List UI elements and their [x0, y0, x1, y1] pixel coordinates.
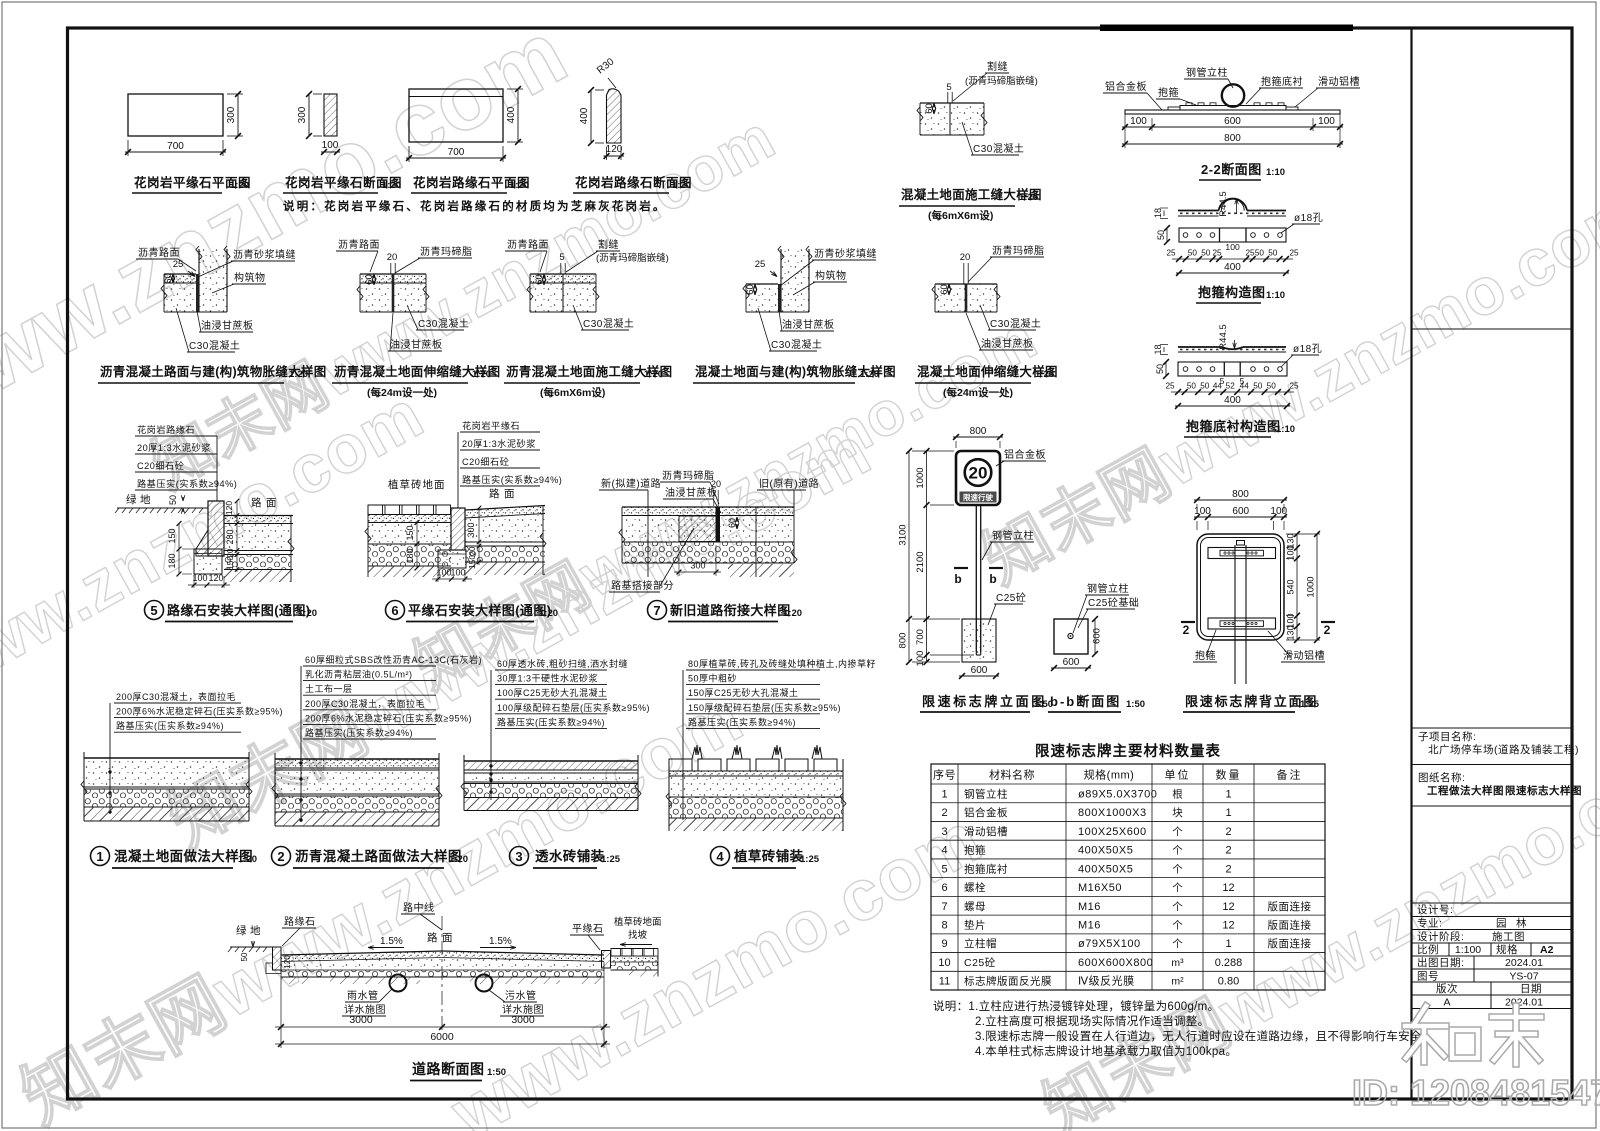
- svg-text:ø79X5X100: ø79X5X100: [1078, 938, 1141, 950]
- svg-text:绿: 绿: [236, 924, 247, 937]
- svg-text:路基搭接部分: 路基搭接部分: [611, 579, 674, 592]
- svg-text:钢管立柱: 钢管立柱: [964, 787, 1008, 800]
- svg-text:铝合金板: 铝合金板: [964, 806, 1008, 819]
- svg-text:b: b: [989, 572, 996, 586]
- svg-text:抱箍: 抱箍: [1195, 649, 1216, 662]
- svg-text:找坡: 找坡: [628, 929, 648, 941]
- svg-text:垫片: 垫片: [964, 919, 986, 932]
- svg-text:沥青玛碲脂: 沥青玛碲脂: [992, 244, 1045, 257]
- new road concrete + lap block: [622, 516, 716, 543]
- detail: asphalt pavement construction joint 沥青混凝土地面施工缝大样图: [530, 274, 596, 283]
- top slide rail: [1208, 548, 1276, 559]
- detail: granite flat-curb plan 花岗岩平缘石平面图: [128, 94, 223, 136]
- svg-text:C25砼基础: C25砼基础: [1088, 596, 1139, 609]
- svg-text:800: 800: [1224, 133, 1241, 144]
- subgrade hatch patches under road: [330, 977, 420, 984]
- svg-text:ø18孔: ø18孔: [1294, 212, 1323, 224]
- svg-text:50: 50: [1200, 382, 1210, 391]
- svg-text:2-2断面图: 2-2断面图: [1201, 162, 1262, 177]
- extra-thick top border segment: [1100, 25, 1353, 32]
- svg-text:(每6mX6m设): (每6mX6m设): [928, 209, 993, 222]
- svg-text:3: 3: [515, 849, 522, 864]
- svg-text:油浸甘蔗板: 油浸甘蔗板: [665, 486, 718, 499]
- svg-text:20: 20: [387, 252, 398, 263]
- svg-text:1: 1: [941, 788, 947, 800]
- svg-text:50: 50: [240, 952, 249, 961]
- svg-text:污水管: 污水管: [505, 989, 537, 1002]
- svg-text:地: 地: [140, 493, 151, 506]
- svg-text:说明：花岗岩平缘石、花岗岩路缘石的材质均为芝麻灰花岗岩。: 说明：花岗岩平缘石、花岗岩路缘石的材质均为芝麻灰花岗岩。: [283, 199, 667, 213]
- svg-text:抱箍: 抱箍: [964, 844, 986, 857]
- svg-text:铝合金板: 铝合金板: [1105, 80, 1147, 93]
- svg-text:设计号:: 设计号:: [1417, 903, 1453, 916]
- svg-text:6000: 6000: [430, 1031, 454, 1043]
- svg-text:抱箍底衬构造图: 抱箍底衬构造图: [1186, 419, 1281, 434]
- svg-text:新旧道路衔接大样图: 新旧道路衔接大样图: [670, 603, 791, 618]
- svg-text:100: 100: [1130, 116, 1147, 127]
- svg-text:图纸名称:: 图纸名称:: [1418, 771, 1465, 784]
- detail: sign panel section 2-2断面图: [1125, 84, 1340, 114]
- svg-text:600X600X800: 600X600X800: [1078, 957, 1153, 969]
- svg-text:绿: 绿: [126, 493, 137, 506]
- joint dark strip: [716, 507, 721, 542]
- svg-text:版次: 版次: [1436, 982, 1458, 995]
- svg-text:3000: 3000: [349, 1014, 373, 1026]
- svg-text:A2: A2: [1540, 944, 1554, 956]
- detail: concrete pavement construction joint 混凝土地面施工缝大样图 (top): [920, 102, 984, 104]
- svg-text:11: 11: [939, 976, 950, 988]
- svg-text:60: 60: [727, 518, 737, 528]
- svg-text:b: b: [954, 572, 961, 586]
- svg-text:立柱帽: 立柱帽: [964, 937, 997, 950]
- svg-text:b-b断面图: b-b断面图: [1050, 694, 1121, 709]
- svg-text:限速标志牌背立面图: 限速标志牌背立面图: [1185, 694, 1318, 709]
- svg-text:钢管立柱: 钢管立柱: [1186, 66, 1228, 79]
- svg-text:0.288: 0.288: [1215, 957, 1243, 969]
- svg-text:限速标志牌立面图: 限速标志牌立面图: [922, 694, 1047, 709]
- svg-text:2: 2: [1225, 863, 1231, 875]
- svg-text:施工图: 施工图: [1492, 930, 1525, 943]
- svg-text:个: 个: [1172, 845, 1183, 857]
- detail: granite road-curb section 花岗岩路缘石断面图 R30: [607, 89, 622, 143]
- svg-text:透水砖铺装: 透水砖铺装: [535, 848, 605, 864]
- svg-text:600: 600: [1092, 628, 1103, 644]
- svg-text:12: 12: [1222, 882, 1234, 894]
- grass ground line: [117, 507, 208, 509]
- svg-text:300: 300: [297, 106, 308, 123]
- svg-text:60厚透水砖,粗砂扫缝,洒水封缝: 60厚透水砖,粗砂扫缝,洒水封缝: [497, 658, 628, 669]
- svg-text:沥青路面: 沥青路面: [138, 246, 180, 259]
- svg-text:(沥青玛碲脂嵌缝): (沥青玛碲脂嵌缝): [965, 75, 1038, 87]
- svg-text:油浸甘蔗板: 油浸甘蔗板: [981, 337, 1034, 350]
- svg-text:园: 园: [1496, 918, 1507, 930]
- svg-text:路缘石: 路缘石: [284, 915, 316, 928]
- svg-text:路基压实(压实系数≥94%): 路基压实(压实系数≥94%): [305, 727, 413, 738]
- right flat curb + grass brick strip: [602, 951, 611, 969]
- svg-text:沥青混凝土路面做法大样图: 沥青混凝土路面做法大样图: [295, 848, 462, 864]
- svg-text:600: 600: [1224, 116, 1241, 127]
- svg-text:M16: M16: [1078, 901, 1101, 913]
- svg-text:路: 路: [489, 487, 500, 500]
- svg-text:5: 5: [946, 82, 951, 93]
- svg-text:1:20: 1:20: [298, 608, 317, 619]
- detail: clamp construction 抱箍构造图: [1178, 198, 1286, 216]
- svg-text:180: 180: [405, 548, 415, 563]
- grass brick row left: [368, 504, 451, 506]
- svg-text:抱箍构造图: 抱箍构造图: [1198, 285, 1266, 300]
- svg-text:m²: m²: [1171, 976, 1184, 988]
- b-b section marks: [954, 567, 968, 569]
- svg-text:4.本单柱式标志牌设计地基承载力取值为100kpa。: 4.本单柱式标志牌设计地基承载力取值为100kpa。: [975, 1044, 1237, 1058]
- svg-text:100: 100: [1270, 506, 1287, 517]
- svg-text:130: 130: [1286, 625, 1296, 640]
- svg-text:4: 4: [941, 845, 947, 857]
- svg-text:YS-07: YS-07: [1509, 971, 1538, 983]
- svg-text:M16X50: M16X50: [1078, 882, 1122, 894]
- svg-text:9: 9: [941, 938, 947, 950]
- svg-text:540: 540: [1286, 579, 1296, 594]
- svg-text:1:20: 1:20: [382, 180, 401, 191]
- svg-text:1:25: 1:25: [800, 854, 820, 865]
- svg-text:25: 25: [1165, 382, 1175, 391]
- bottom slide rail: [1208, 618, 1276, 629]
- svg-text:说明：1.立柱应进行热浸镀锌处理，镀锌量为600g/m。: 说明：1.立柱应进行热浸镀锌处理，镀锌量为600g/m。: [933, 999, 1219, 1013]
- detail: clamp liner construction 抱箍底衬构造图: [1178, 347, 1286, 352]
- svg-text:1: 1: [1225, 807, 1231, 819]
- elevation dim chains: [926, 451, 928, 662]
- svg-text:C30混凝土: C30混凝土: [973, 142, 1024, 155]
- svg-text:5: 5: [559, 252, 564, 263]
- svg-text:钢管立柱: 钢管立柱: [1087, 582, 1129, 595]
- svg-text:400: 400: [506, 106, 517, 123]
- section marks 2-2: [1181, 621, 1195, 623]
- svg-text:子项目名称:: 子项目名称:: [1418, 730, 1476, 743]
- svg-text:1:10: 1:10: [1266, 167, 1285, 178]
- svg-text:50: 50: [1255, 249, 1265, 258]
- svg-text:180: 180: [167, 553, 177, 568]
- road pavement layers right of curb: [224, 516, 291, 524]
- bottom dims 100 120: [188, 584, 230, 586]
- svg-text:400: 400: [1224, 395, 1241, 406]
- svg-text:10: 10: [938, 957, 950, 969]
- svg-text:林: 林: [1516, 917, 1527, 930]
- svg-text:60: 60: [745, 284, 756, 295]
- svg-text:Ⅳ级反光膜: Ⅳ级反光膜: [1078, 974, 1135, 988]
- svg-text:280: 280: [225, 529, 235, 544]
- svg-text:ø89X5.0X3700: ø89X5.0X3700: [1078, 788, 1157, 800]
- curb stone hatched: [196, 501, 224, 556]
- svg-text:20厚1:3水泥砂浆: 20厚1:3水泥砂浆: [137, 442, 211, 453]
- svg-text:50: 50: [1201, 249, 1211, 258]
- detail: speed limit sign front elevation 限速标志牌立面图: [953, 436, 1003, 438]
- grass tufts: [692, 745, 702, 759]
- svg-text:100X25X600: 100X25X600: [1078, 826, 1147, 838]
- svg-text:4: 4: [716, 849, 724, 864]
- svg-text:R30: R30: [595, 56, 617, 76]
- svg-text:800: 800: [970, 426, 987, 437]
- svg-text:设计阶段:: 设计阶段:: [1417, 930, 1464, 943]
- svg-text:路缘石安装大样图(通图): 路缘石安装大样图(通图): [167, 603, 310, 618]
- svg-text:600: 600: [971, 665, 988, 676]
- svg-text:800X1000X3: 800X1000X3: [1078, 807, 1147, 819]
- 300 dim: [678, 545, 680, 576]
- svg-text:C25砼: C25砼: [964, 956, 996, 969]
- svg-text:150: 150: [225, 556, 235, 570]
- center line vertical: [441, 916, 443, 1034]
- svg-text:150: 150: [467, 555, 477, 569]
- detail: concrete pavement to structure expansion joint 混凝土地面与建(构)筑物胀缝大样图: [781, 249, 809, 312]
- svg-text:25: 25: [1245, 249, 1255, 258]
- svg-text:60厚细粒式SBS改性沥青AC-13C(石灰岩): 60厚细粒式SBS改性沥青AC-13C(石灰岩): [305, 654, 482, 665]
- svg-text:R44.5: R44.5: [1218, 324, 1229, 349]
- svg-text:路基压实(实系数≥94%): 路基压实(实系数≥94%): [462, 474, 562, 485]
- svg-text:铝合金板: 铝合金板: [1004, 448, 1046, 461]
- svg-text:1:20: 1:20: [539, 608, 558, 619]
- svg-text:面: 面: [504, 488, 515, 500]
- svg-text:面: 面: [442, 932, 453, 944]
- svg-text:200厚C30混凝土，表面拉毛: 200厚C30混凝土，表面拉毛: [116, 691, 236, 702]
- svg-text:植草砖地面: 植草砖地面: [388, 478, 446, 491]
- svg-text:单位: 单位: [1165, 768, 1191, 782]
- svg-text:100: 100: [450, 568, 465, 578]
- svg-text:沥青玛碲脂: 沥青玛碲脂: [662, 469, 715, 482]
- svg-text:2: 2: [1183, 623, 1190, 637]
- svg-text:M16: M16: [1078, 920, 1101, 932]
- svg-text:雨水管: 雨水管: [347, 989, 379, 1002]
- svg-text:花岗岩平缘石: 花岗岩平缘石: [462, 420, 520, 431]
- old road concrete: [720, 516, 794, 543]
- svg-text:25: 25: [1166, 249, 1176, 258]
- svg-text:个: 个: [1172, 882, 1183, 894]
- svg-text:30厚1:3干硬性水泥砂浆: 30厚1:3干硬性水泥砂浆: [497, 673, 598, 684]
- svg-text:植草砖地面: 植草砖地面: [614, 916, 662, 928]
- svg-text:版面连接: 版面连接: [1268, 919, 1312, 932]
- svg-text:道路断面图: 道路断面图: [412, 1061, 485, 1077]
- svg-text:100厚级配碎石垫层(压实系数≥95%): 100厚级配碎石垫层(压实系数≥95%): [497, 702, 650, 713]
- svg-text:3: 3: [941, 826, 947, 838]
- svg-text:限速标志牌主要材料数量表: 限速标志牌主要材料数量表: [1035, 742, 1221, 760]
- svg-text:0.80: 0.80: [1218, 976, 1239, 988]
- svg-text:个: 个: [1172, 938, 1183, 950]
- svg-text:1:100: 1:100: [1455, 944, 1481, 956]
- svg-text:25: 25: [173, 259, 184, 270]
- svg-text:2: 2: [277, 849, 284, 864]
- svg-text:沥青路面: 沥青路面: [338, 238, 380, 251]
- svg-text:50: 50: [1188, 249, 1198, 258]
- svg-text:100: 100: [1225, 242, 1240, 252]
- svg-text:花岗岩路缘石: 花岗岩路缘石: [137, 424, 195, 435]
- title block rows: [1412, 902, 1572, 904]
- svg-text:螺栓: 螺栓: [964, 881, 986, 894]
- svg-text:构筑物: 构筑物: [234, 271, 266, 284]
- svg-text:割缝: 割缝: [598, 238, 619, 251]
- svg-text:C30混凝土: C30混凝土: [990, 317, 1041, 330]
- svg-text:C30混凝土: C30混凝土: [189, 339, 240, 352]
- svg-text:C20细石砼: C20细石砼: [462, 456, 509, 467]
- svg-text:(每24m设一处): (每24m设一处): [943, 386, 1013, 399]
- svg-text:60: 60: [534, 274, 545, 285]
- svg-text:100: 100: [192, 573, 207, 583]
- svg-text:1:20: 1:20: [230, 180, 249, 191]
- svg-text:数量: 数量: [1216, 769, 1242, 782]
- svg-text:日期: 日期: [1520, 983, 1542, 995]
- title block horizontal dividers: [1412, 328, 1572, 330]
- svg-text:规格(mm): 规格(mm): [1084, 768, 1135, 782]
- svg-text:150: 150: [405, 525, 415, 540]
- svg-text:20: 20: [468, 546, 477, 555]
- detail: granite road-curb plan 花岗岩路缘石平面图: [409, 89, 503, 142]
- svg-text:1:20: 1:20: [1035, 369, 1054, 380]
- svg-text:2: 2: [1324, 623, 1331, 637]
- road body crowned: [281, 951, 604, 962]
- curb base: [438, 550, 466, 568]
- svg-text:1:20: 1:20: [510, 180, 529, 191]
- svg-text:沥青玛碲脂: 沥青玛碲脂: [420, 245, 473, 258]
- svg-text:800: 800: [1232, 489, 1249, 500]
- svg-text:C30混凝土: C30混凝土: [583, 317, 634, 330]
- svg-text:图号: 图号: [1417, 971, 1439, 983]
- svg-text:出图日期:: 出图日期:: [1417, 956, 1464, 969]
- svg-text:油浸甘蔗板: 油浸甘蔗板: [782, 318, 835, 331]
- svg-text:乳化沥青粘层油(0.5L/m²): 乳化沥青粘层油(0.5L/m²): [305, 669, 413, 680]
- detail: concrete pavement contraction joint 混凝土地面伸缩缝大样图: [935, 283, 997, 285]
- svg-text:18: 18: [1153, 344, 1163, 354]
- svg-text:60: 60: [364, 274, 375, 285]
- svg-text:1:10: 1:10: [1266, 290, 1285, 301]
- svg-text:比例: 比例: [1417, 943, 1439, 956]
- svg-text:植草砖铺装: 植草砖铺装: [733, 848, 804, 864]
- left dims 150/180: [178, 524, 180, 575]
- svg-text:路: 路: [251, 496, 262, 509]
- svg-text:700: 700: [915, 629, 926, 645]
- svg-text:抱箍底衬: 抱箍底衬: [1261, 75, 1303, 88]
- svg-text:150厚C25无砂大孔混凝土: 150厚C25无砂大孔混凝土: [688, 687, 799, 698]
- svg-text:C30混凝土: C30混凝土: [418, 317, 469, 330]
- svg-text:1:10: 1:10: [1276, 424, 1295, 435]
- detail: asphalt pavement to structure expansion joint 沥青混凝土路面与建(构)筑物胀缝大样图: [199, 249, 227, 312]
- svg-text:平缘石: 平缘石: [572, 922, 604, 935]
- svg-text:1:20: 1:20: [472, 369, 491, 380]
- svg-text:滑动铝槽: 滑动铝槽: [1318, 75, 1360, 88]
- svg-text:60: 60: [924, 103, 935, 114]
- svg-text:2024.01: 2024.01: [1505, 997, 1543, 1009]
- svg-text:25: 25: [1289, 249, 1299, 258]
- svg-text:300: 300: [466, 522, 476, 537]
- boundary verticals: [621, 507, 623, 563]
- svg-text:1:50: 1:50: [487, 1067, 506, 1078]
- svg-text:5: 5: [941, 863, 947, 875]
- svg-text:150厚级配碎石垫层(压实系数≥95%): 150厚级配碎石垫层(压实系数≥95%): [688, 702, 841, 713]
- curb concrete base: [194, 549, 222, 574]
- svg-text:土工布一层: 土工布一层: [305, 683, 353, 694]
- svg-text:8: 8: [941, 920, 947, 932]
- svg-text:螺母: 螺母: [964, 901, 986, 913]
- svg-text:路中线: 路中线: [403, 901, 435, 914]
- svg-text:1:20: 1:20: [1019, 192, 1038, 203]
- svg-text:20: 20: [711, 479, 721, 489]
- svg-text:100: 100: [1194, 506, 1211, 517]
- svg-text:6: 6: [391, 603, 398, 618]
- left green ground line: [230, 946, 272, 948]
- svg-text:C25砼: C25砼: [996, 591, 1026, 604]
- svg-text:路基压实(压实系数≥94%): 路基压实(压实系数≥94%): [688, 716, 796, 727]
- svg-text:C20细石砼: C20细石砼: [137, 460, 184, 471]
- grass bricks row: [669, 759, 692, 771]
- svg-text:2100: 2100: [915, 551, 926, 572]
- detail: speed limit sign back elevation 限速标志牌背立面图: [1194, 499, 1287, 501]
- svg-text:根: 根: [1172, 787, 1183, 800]
- svg-text:3100: 3100: [898, 524, 909, 545]
- svg-text:路基压实(实系数≥94%): 路基压实(实系数≥94%): [137, 478, 237, 489]
- drainage pipes: [390, 975, 407, 992]
- sign board with 20 roundel: [956, 451, 1000, 505]
- svg-text:沥青砂浆填缝: 沥青砂浆填缝: [233, 248, 296, 261]
- svg-text:100: 100: [915, 651, 926, 667]
- svg-text:50: 50: [1268, 249, 1278, 258]
- svg-text:1:20: 1:20: [289, 369, 308, 380]
- svg-text:滑动铝槽: 滑动铝槽: [964, 825, 1008, 838]
- gravel layer: [622, 542, 794, 563]
- svg-text:18: 18: [1153, 208, 1163, 218]
- svg-text:沥青路面: 沥青路面: [507, 238, 549, 251]
- post behind panel: [1234, 545, 1236, 684]
- svg-text:ID: 1208481547: ID: 1208481547: [1352, 1072, 1600, 1113]
- svg-text:1:20: 1:20: [860, 369, 879, 380]
- svg-text:120: 120: [606, 144, 623, 155]
- svg-text:1:50: 1:50: [1126, 699, 1145, 710]
- svg-text:R44.5: R44.5: [1218, 191, 1229, 216]
- svg-text:A: A: [1443, 997, 1450, 1009]
- dim chains 3000/3000/6000: [280, 962, 282, 1048]
- svg-text:20厚1:3水泥砂浆: 20厚1:3水泥砂浆: [462, 438, 536, 449]
- svg-text:400X50X5: 400X50X5: [1078, 845, 1133, 857]
- svg-text:油浸甘蔗板: 油浸甘蔗板: [390, 338, 443, 351]
- svg-text:3.限速标志牌一般设置在人行道边，无人行道时应设在道路边缘，: 3.限速标志牌一般设置在人行道边，无人行道时应设在道路边缘，且不得影响行车安全。: [975, 1029, 1434, 1043]
- svg-text:150: 150: [167, 528, 177, 543]
- svg-text:12: 12: [1222, 920, 1234, 932]
- svg-text:100: 100: [436, 568, 451, 578]
- svg-text:2024.01: 2024.01: [1505, 957, 1543, 969]
- svg-text:50: 50: [1253, 382, 1263, 391]
- svg-text:7: 7: [653, 603, 660, 618]
- svg-text:200厚C30混凝土，表面拉毛: 200厚C30混凝土，表面拉毛: [305, 698, 425, 709]
- svg-text:标志牌版面反光膜: 标志牌版面反光膜: [964, 975, 1052, 988]
- svg-text:400X50X5: 400X50X5: [1078, 863, 1133, 875]
- svg-text:(每24m设一处): (每24m设一处): [367, 386, 437, 399]
- svg-text:3000: 3000: [511, 1014, 535, 1026]
- svg-text:混凝土地面做法大样图: 混凝土地面做法大样图: [114, 848, 253, 864]
- svg-text:油浸甘蔗板: 油浸甘蔗板: [201, 319, 254, 332]
- svg-text:1:20: 1:20: [672, 180, 691, 191]
- svg-text:100厚C25无砂大孔混凝土: 100厚C25无砂大孔混凝土: [497, 687, 608, 698]
- old subgrade hatch right: [728, 564, 794, 577]
- svg-text:割缝: 割缝: [987, 60, 1008, 73]
- svg-text:1.5%: 1.5%: [380, 936, 403, 947]
- svg-text:限速标志大样图: 限速标志大样图: [1505, 784, 1582, 797]
- concrete foundation: [962, 619, 996, 662]
- svg-text:200厚6%水泥稳定碎石(压实系数≥95%): 200厚6%水泥稳定碎石(压实系数≥95%): [116, 706, 283, 717]
- 60 dim: [736, 517, 738, 522]
- watermark logo 知末 (hand-drawn hollow strokes): [1405, 1006, 1541, 1064]
- detail: post foundation section b-b断面图: [1054, 619, 1088, 654]
- svg-text:700: 700: [448, 147, 465, 158]
- svg-text:6: 6: [941, 882, 947, 894]
- svg-text:50: 50: [1187, 382, 1197, 391]
- top asphalt strip: [622, 507, 794, 516]
- svg-text:1:20: 1:20: [644, 369, 663, 380]
- svg-text:版面连接: 版面连接: [1268, 900, 1312, 913]
- svg-text:1:20: 1:20: [238, 854, 257, 865]
